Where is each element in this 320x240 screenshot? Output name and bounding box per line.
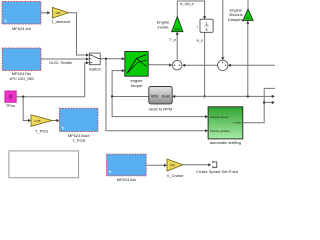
block TPos (constant, magenta)	[5, 91, 16, 108]
svg-text:Cruise Speed Set-Point: Cruise Speed Set-Point	[196, 169, 239, 174]
block MF624 Aout T_POS	[59, 108, 98, 143]
block automatic shifting	[208, 107, 243, 145]
svg-text:throttle position: throttle position	[210, 129, 231, 133]
gain Engine Viscous Damping (be, pointing up)	[228, 8, 254, 22]
junction t_ratio branch	[263, 101, 265, 103]
svg-text:xPC DIG_IN5: xPC DIG_IN5	[9, 76, 34, 81]
svg-text:be: be	[246, 16, 250, 20]
svg-text:RPM: RPM	[151, 95, 158, 99]
gain Engine inertia (1/Je, pointing up)	[157, 16, 183, 31]
svg-text:V_Cruise: V_Cruise	[167, 173, 184, 178]
gain V_Cruise	[167, 159, 184, 178]
svg-text:MF624 Ain: MF624 Ain	[117, 177, 136, 182]
block MF624 Ain (bottom analog input)	[107, 154, 147, 182]
wire engine torque output to sum1	[148, 63, 172, 66]
block MF624 Din xPC DIG_IN5	[2, 48, 41, 81]
Cruise Speed Set-Point tag	[196, 161, 239, 174]
block Switch	[89, 53, 101, 71]
wire from right edge into sum2	[228, 64, 275, 67]
svg-text:T_demand: T_demand	[51, 19, 70, 24]
wire w_e to right edge	[205, 95, 275, 98]
wire sum1 output up to Engine inertia (T_e)	[176, 32, 179, 60]
svg-text:T_POS: T_POS	[35, 128, 48, 133]
svg-text:100: 100	[170, 163, 175, 167]
block engine torque (2-D lookup table)	[125, 52, 148, 89]
sum1	[172, 60, 182, 70]
sum2	[218, 60, 228, 70]
svg-text:OL/CL Throttle: OL/CL Throttle	[49, 61, 72, 65]
svg-text:s: s	[206, 27, 208, 32]
wire V_Cruise to Cruise Speed Set-Point tag	[183, 163, 211, 166]
wire rad/s-to-RPM output to engine torque input2	[112, 69, 149, 97]
wire Engine Viscous Damping apex up to crop edge	[247, 0, 249, 9]
svg-text:torque: torque	[131, 83, 143, 88]
svg-text:MF624 Ain: MF624 Ain	[12, 26, 31, 31]
svg-text:rad/s to RPM: rad/s to RPM	[149, 106, 172, 111]
junction Switch output	[105, 58, 107, 60]
junction TPos branch	[22, 96, 24, 98]
svg-text:T_e: T_e	[170, 38, 176, 42]
integrator 1/s	[197, 19, 213, 32]
wire Switch output down to automatic shifting throttle position	[106, 59, 208, 132]
junction damping feed	[247, 95, 249, 97]
wire TPos to Switch input3	[16, 61, 89, 96]
svg-text:1/Je: 1/Je	[174, 27, 180, 31]
svg-text:automatic shifting: automatic shifting	[210, 140, 241, 145]
wire from top edge into sum2	[221, 0, 224, 60]
svg-text:Switch: Switch	[89, 66, 101, 71]
wire T_POS gain to B3	[52, 119, 59, 122]
wire damping feed up to Engine Viscous Damping	[246, 21, 249, 97]
svg-text:Damping: Damping	[228, 17, 244, 22]
block MF624 Ain (top-left analog input)	[2, 2, 41, 32]
wire w_e to rad/s to RPM block	[172, 95, 204, 98]
svg-text:TPos: TPos	[6, 103, 15, 108]
junction RPM branch	[111, 95, 113, 97]
annotation box (empty)	[9, 151, 79, 178]
wire B1 to T_demand gain	[41, 11, 50, 14]
wire t_ratio output of automatic shifting	[243, 88, 275, 122]
svg-text:w_e: w_e	[197, 39, 204, 43]
svg-text:t_ratio: t_ratio	[232, 121, 241, 125]
wire sum2 output to sum1 right input	[182, 64, 218, 67]
svg-text:100: 100	[55, 11, 60, 15]
wire B4 to V_Cruise gain	[146, 164, 167, 167]
wire TPos branch down to T_POS gain	[23, 97, 31, 122]
svg-text:0.05: 0.05	[35, 119, 41, 123]
wire t_ratio branch to right edge	[264, 101, 275, 104]
svg-text:T_POS: T_POS	[72, 138, 85, 143]
svg-text:w_dot_e: w_dot_e	[180, 2, 194, 6]
block rad/s to RPM (flipped gray)	[149, 87, 172, 112]
svg-text:Rad/s: Rad/s	[162, 95, 171, 99]
wire RPM branch down to automatic shifting vehicle speed	[112, 97, 208, 119]
wire integrator output down (w_e)	[204, 32, 206, 96]
junction w_e	[203, 95, 205, 97]
gain T_POS	[31, 115, 52, 134]
wire B2 to Switch input2 (OL/CL Throttle)	[41, 57, 89, 60]
svg-text:inertia: inertia	[158, 24, 170, 29]
wire Switch output to engine torque input1	[100, 57, 125, 60]
gain T_demand	[51, 7, 70, 24]
svg-text:vehicle speed: vehicle speed	[210, 115, 229, 119]
wire Engine inertia apex to integrator input (w_dot_e)	[177, 1, 206, 19]
wire T_demand to Switch input1	[69, 13, 90, 57]
